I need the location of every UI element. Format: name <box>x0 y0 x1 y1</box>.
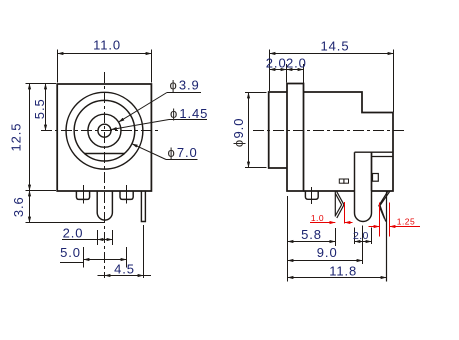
dim 4.5 extension line (right pin) <box>143 225 145 278</box>
dim 14.5 extension lines <box>269 50 271 92</box>
dim 14.5 line <box>270 53 394 55</box>
left view: vertical centerline <box>104 72 106 278</box>
right view: terminal block inner vertical <box>371 152 373 191</box>
right view: left claw pin vertical edge <box>334 191 336 217</box>
right view: internal shelf line <box>355 151 394 153</box>
svg-text:ϕ3.9: ϕ3.9 <box>170 78 200 93</box>
red dim 1.0 line with arrows <box>310 222 335 224</box>
right view: right claw pin chevron <box>379 191 390 222</box>
svg-text:ϕ9.0: ϕ9.0 <box>231 118 246 147</box>
left view: outer shield circle (9.0) <box>66 92 143 169</box>
left view: right mounting bump <box>120 191 133 199</box>
left view: right bump centerline tick <box>126 185 128 204</box>
dim phi 9.0 extension lines <box>245 92 267 94</box>
svg-text:1.0: 1.0 <box>311 213 324 223</box>
dim 11.0 extension lines <box>57 50 59 83</box>
dim 9.0 line <box>288 260 363 262</box>
right view: mounting bump under flange <box>305 191 318 199</box>
dim 3.6 line <box>29 191 31 223</box>
right view: main body outline <box>304 92 394 191</box>
dim 12.5 extension lines <box>26 83 57 85</box>
svg-text:11.0: 11.0 <box>93 38 121 53</box>
dim 2.0 (pin) line with inside arrows <box>355 241 372 243</box>
dim 11.8 line <box>288 277 387 279</box>
bottom dims: left extension line <box>287 196 289 282</box>
red dim 1.25 extension lines <box>379 203 381 237</box>
dims 2.0 2.0 extension lines <box>286 64 288 83</box>
dim 2.0 (second) line <box>287 69 304 71</box>
leader dia 3.9: underline <box>167 92 201 94</box>
red dim 1.25 line with arrows <box>369 226 380 228</box>
dim 5.8 line <box>288 241 336 243</box>
svg-text:2.0: 2.0 <box>286 55 307 70</box>
right view: two tiny rectangles detail <box>339 179 344 183</box>
svg-text:4.5: 4.5 <box>114 262 135 277</box>
leader dia 1.45: arrow line <box>111 120 169 130</box>
leader dia 1.45: underline <box>169 119 207 121</box>
svg-text:5.0: 5.0 <box>60 245 81 260</box>
left view: left mounting bump <box>76 191 89 199</box>
svg-text:14.5: 14.5 <box>321 38 350 53</box>
dim 4.5 line tails <box>98 275 105 277</box>
svg-text:2.0: 2.0 <box>266 55 287 70</box>
left view: horizontal centerline <box>41 130 160 132</box>
dim 3.6 extension line at pin bottom <box>26 222 106 224</box>
right view: center pin with round tip <box>355 152 372 221</box>
svg-text:ϕ7.0: ϕ7.0 <box>168 145 198 160</box>
right view: small square detail <box>373 174 379 182</box>
dim 2.0 (pin) extension lines <box>354 228 356 245</box>
left view: circle dia 3.9 <box>88 114 121 147</box>
dim 2.0 line <box>62 239 98 241</box>
svg-text:12.5: 12.5 <box>8 123 23 152</box>
dim 2.0 (first) line <box>270 69 287 71</box>
red dim 1.0 extension line <box>344 202 346 224</box>
dim 5.8 right extension <box>335 228 337 246</box>
dim 5.0 text underline <box>60 262 84 264</box>
svg-text:2.0: 2.0 <box>353 230 369 242</box>
left view: jack body square outline <box>57 84 151 191</box>
right view: left claw pin chevron <box>335 191 344 218</box>
leader dia 7.0: underline <box>166 159 198 161</box>
left view: center pin with round tip <box>97 191 112 220</box>
svg-text:11.8: 11.8 <box>329 263 357 278</box>
leader dia 3.9: arrow line <box>119 93 167 123</box>
right view: shelf double line <box>372 156 394 158</box>
left view: center pin circle dia 1.45 <box>98 124 111 137</box>
right view: horizontal centerline <box>253 130 405 132</box>
svg-text:3.6: 3.6 <box>11 196 26 217</box>
dim 2.0 extension lines (center pin) <box>97 230 99 245</box>
leader dia 7.0: arrow line <box>132 144 166 160</box>
dim 12.5 line <box>29 84 31 191</box>
dim 4.5 line <box>105 275 144 277</box>
dim 5.0 extension lines <box>83 247 85 268</box>
dim 11.0 line <box>58 53 152 55</box>
svg-text:5.5: 5.5 <box>32 98 47 119</box>
right view: right claw pin long edge + 11.8 extension <box>386 191 388 282</box>
dim 5.0 line <box>84 259 127 261</box>
left view: chord flat on 7.0 circle <box>84 153 125 155</box>
dim 9.0 extension line (pin axis) <box>362 226 364 265</box>
right view: front flange plate <box>287 84 304 192</box>
svg-text:ϕ1.45: ϕ1.45 <box>170 106 208 121</box>
svg-text:1.25: 1.25 <box>397 217 416 227</box>
right view: barrel (protruding cylinder) <box>269 92 287 168</box>
dim 5.5 line <box>45 84 47 131</box>
dim phi 9.0 line <box>248 93 250 168</box>
left view: circle dia 7.0 <box>74 100 135 161</box>
right view: bump centerline tick <box>311 187 313 204</box>
left view: right thin pin <box>141 191 145 222</box>
svg-text:9.0: 9.0 <box>317 245 338 260</box>
left view: left bump centerline tick <box>83 185 85 204</box>
svg-text:2.0: 2.0 <box>63 226 84 241</box>
svg-text:5.8: 5.8 <box>301 227 322 242</box>
